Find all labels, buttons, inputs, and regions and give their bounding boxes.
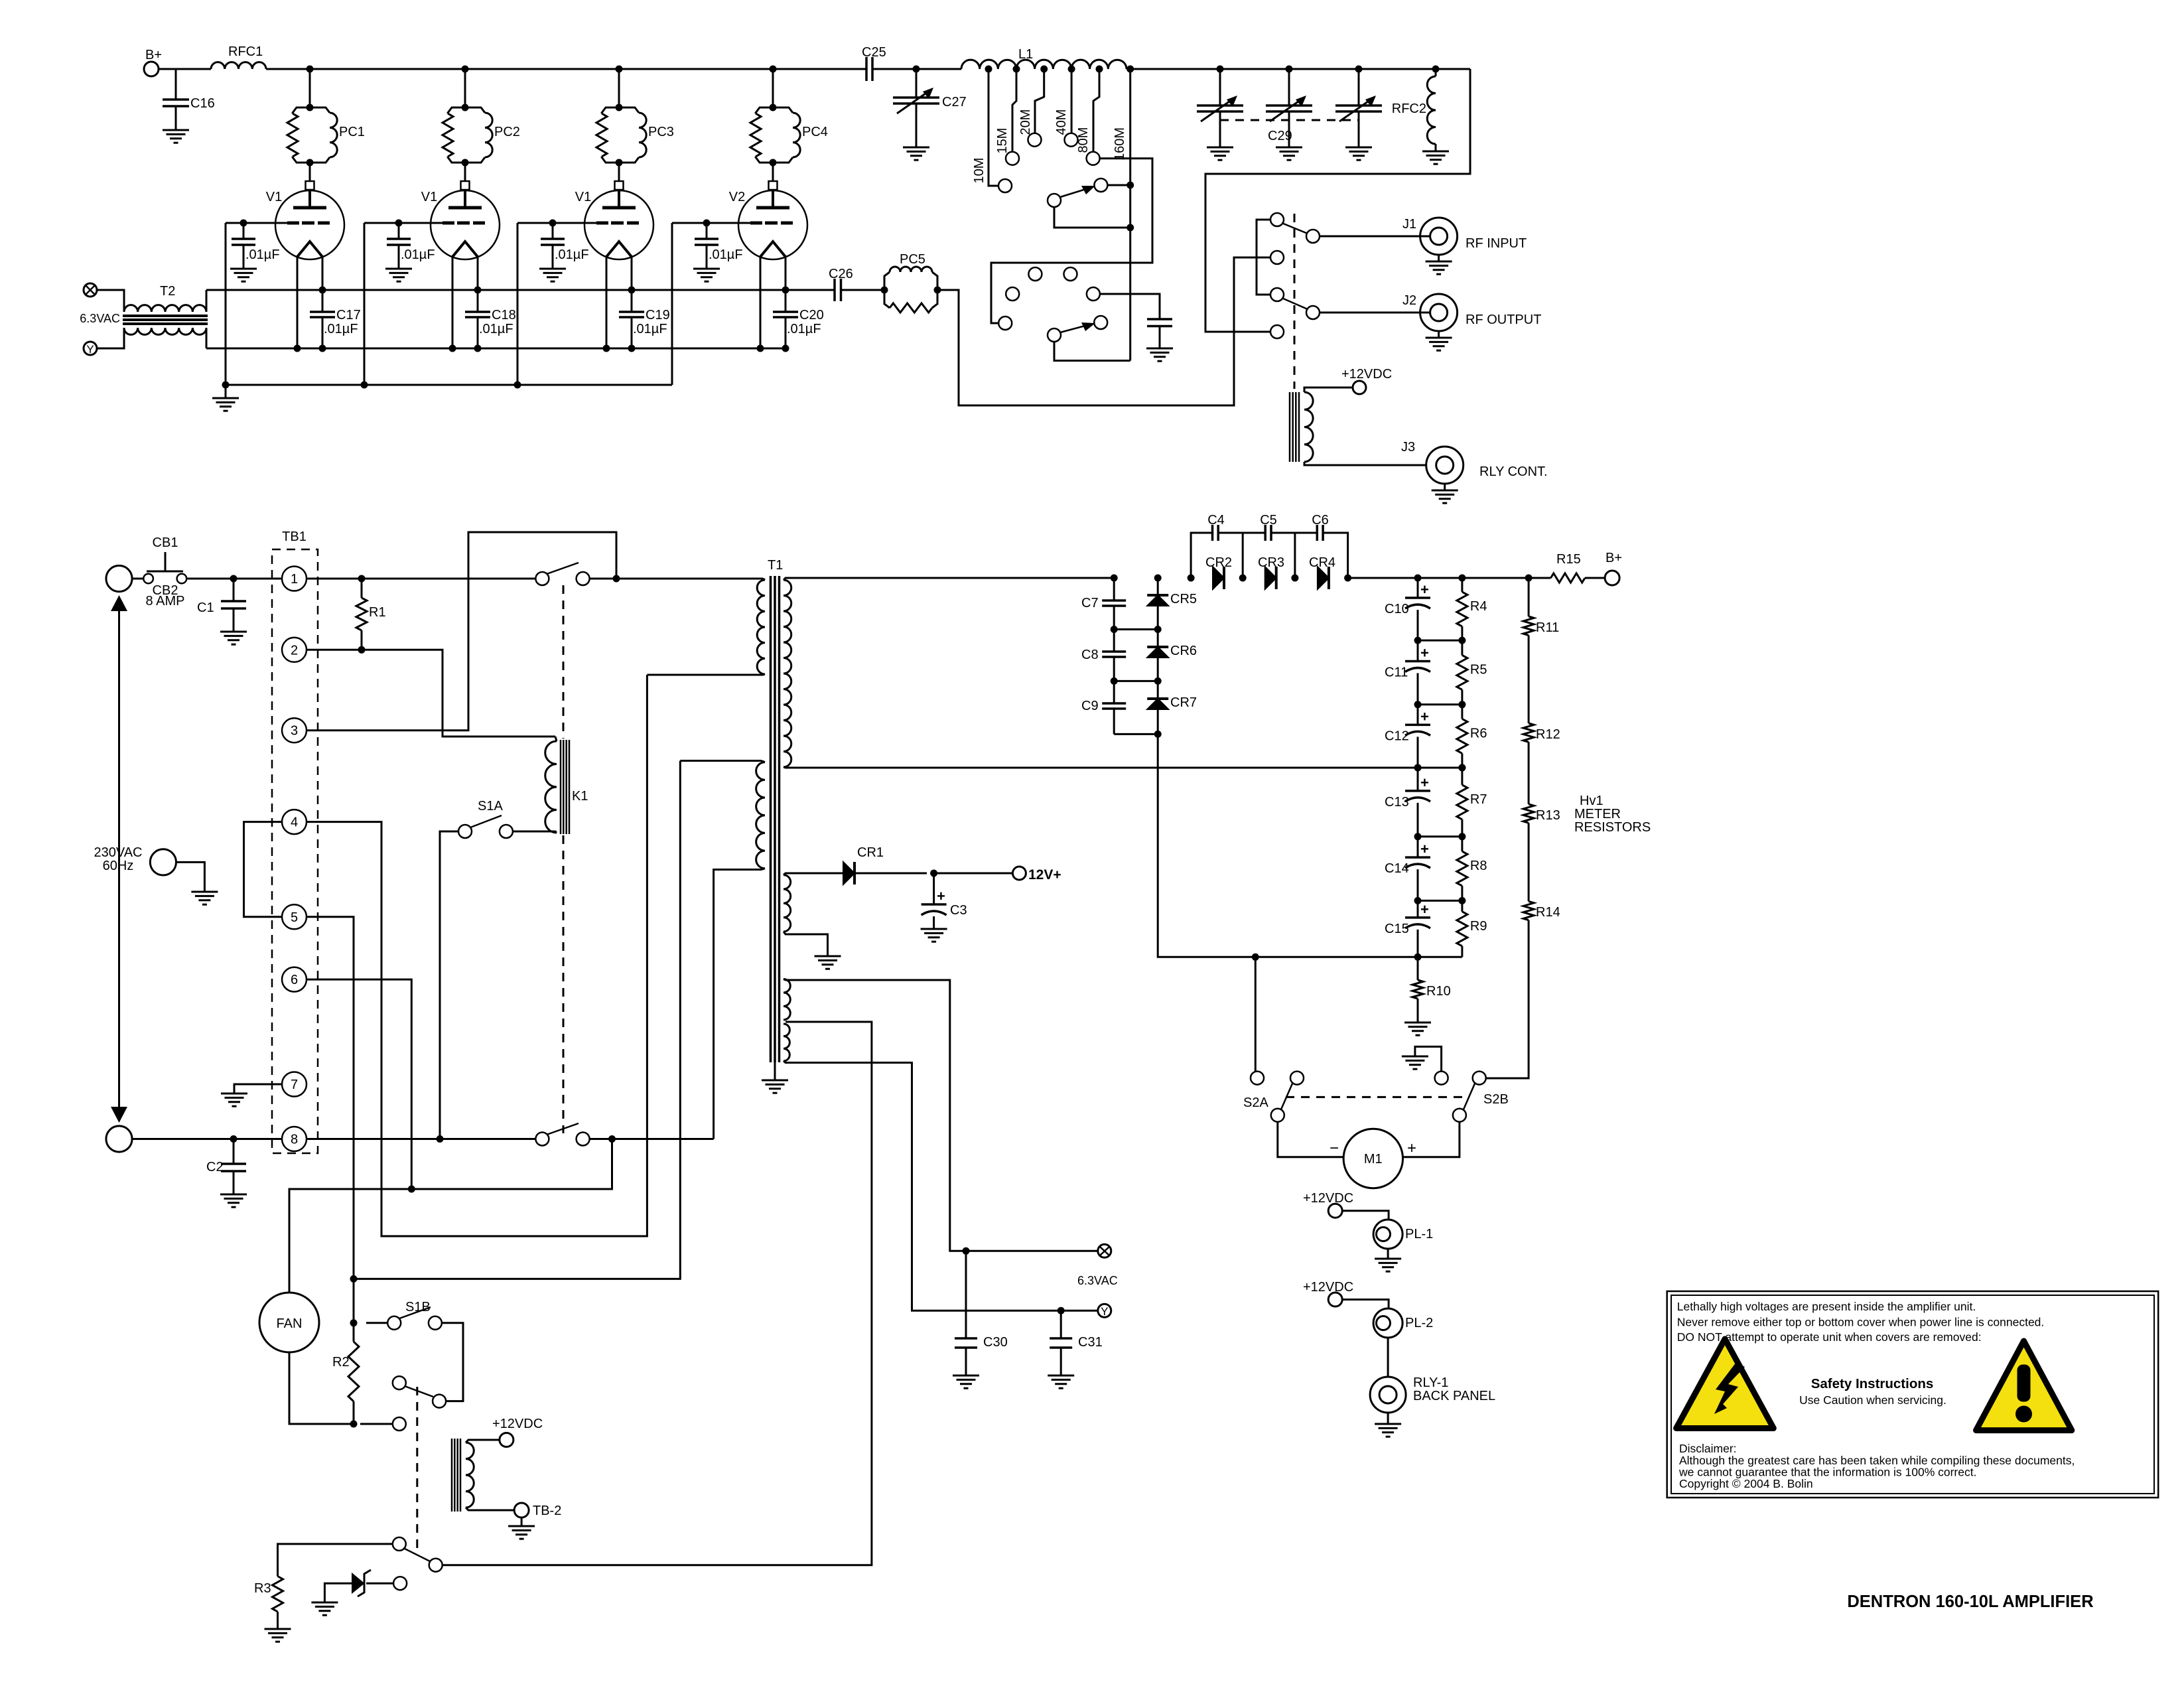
node C1 junction [230,575,238,583]
ground for S2B [1402,1056,1428,1058]
node L1 tap 15M [1013,66,1020,73]
capacitor C3 filter [933,873,935,904]
svg-text:Y: Y [86,343,94,356]
wire cathode legs tube 1 [297,257,299,348]
wire S3B wiper to 160M line [1054,342,1130,361]
tube V1 #2 [461,181,470,190]
svg-text:L1: L1 [1018,47,1033,62]
svg-text:PC3: PC3 [648,125,674,139]
switch S1B common contact [393,1417,406,1431]
wire C25 to L1 [872,68,961,70]
wire 80M to input wafer [991,159,1152,323]
wire PC5 to relay contact 2 [937,257,1271,405]
ground for C29 section 2 [1276,147,1302,149]
wire stack junction row 1 [1418,640,1462,642]
svg-text:.01µF: .01µF [401,247,435,262]
svg-text:C17: C17 [336,308,361,322]
transformer T1 6.3V winding [784,979,790,1021]
ground for T1 core [774,1062,776,1080]
contact 20M [1028,133,1042,147]
terminal TB1-5 [282,904,307,929]
wire terminal 2 to K1 coil [307,650,555,737]
input wafer contact D [1006,287,1019,301]
node filter stack top [1414,575,1422,582]
terminal X filament feed [84,283,97,297]
ground for C27 [903,147,929,149]
diode CR6 [1147,647,1168,658]
wire R13-R14 [1528,823,1530,901]
node S1B feed junction [350,1319,358,1326]
svg-text:S2A: S2A [1243,1095,1268,1110]
svg-text:RFC1: RFC1 [228,44,263,59]
node L1 end 160M [1126,66,1134,73]
tube V1 #3 [615,181,624,190]
node C7 bottom [1111,626,1118,633]
wire terminal 8 to K1 pole B [307,1138,535,1140]
svg-text:.01µF: .01µF [709,247,743,262]
variable capacitor C29 section 2 [1288,69,1290,106]
node K1 pole A output [613,575,620,583]
parasitic suppressor PC5 [881,287,888,294]
switch S1A [500,825,513,838]
svg-text:V1: V1 [421,190,437,204]
svg-text:C12: C12 [1385,729,1409,743]
node cathode-X bus junction tube 1 [319,287,326,294]
wire PC3 to tube anode cap [618,163,620,181]
ground for J1 [1438,255,1440,261]
wire safety ground [176,862,205,892]
terminal block TB1 dashed outline [272,549,318,1153]
switch S2A moving contact [1271,1109,1284,1122]
meter M1 [1343,1129,1402,1188]
node C29 junction 2 [1286,66,1293,73]
svg-text:C13: C13 [1385,795,1409,810]
wire S3A wiper to 160M line [1054,207,1130,228]
capacitor C1 line filter [233,579,235,601]
switch S2A contact 1 [1251,1072,1264,1085]
svg-text:C26: C26 [829,267,853,281]
terminal Y filament out [1098,1304,1111,1317]
svg-text:R8: R8 [1470,859,1487,873]
svg-text:.01µF: .01µF [324,322,358,336]
safety instructions box [1667,1291,2159,1498]
input wafer contact C [1064,267,1077,281]
node L1 tap 80M [1096,66,1103,73]
capacitor input padder [1147,318,1172,320]
relay blade 1 [1282,223,1308,234]
terminal X filament out [1098,1244,1111,1257]
capacitor C17 filament bypass [310,311,335,313]
warning triangle caution [1976,1341,2072,1431]
connector J1 RF INPUT [1420,218,1458,255]
wire top rail RFC1 to C25 [266,68,866,70]
ground for C1 [220,631,247,633]
svg-text:C19: C19 [646,308,670,322]
terminal B+ output [1605,571,1619,585]
ground for C3 [921,928,947,930]
node S1A junction on neutral [437,1135,444,1143]
svg-text:20M: 20M [1018,109,1033,135]
relay K1 contact pole B [535,1133,549,1146]
svg-text:.01µF: .01µF [555,247,589,262]
svg-text:+12VDC: +12VDC [1341,367,1392,382]
wire C7 to CR5 junction [1114,628,1158,630]
node RFC2 junction [1432,66,1440,73]
relay contact 2 [1270,251,1284,264]
wire R14 to S2B [1486,920,1529,1078]
wire K1 coil to S1A [513,831,557,833]
svg-text:PC5: PC5 [900,252,925,267]
terminal +12VDC fan relay [500,1433,513,1447]
wire relay coil to J3 [1304,462,1426,465]
speed switch upper contact [393,1537,406,1551]
svg-text:Disclaimer:: Disclaimer: [1679,1442,1737,1455]
node stack junction 1 [1414,637,1422,644]
svg-text:R14: R14 [1536,905,1560,920]
ground for grid bypass cap tube 3 [539,268,566,270]
relay coil K1 [545,741,557,833]
svg-text:Copyright © 2004 B. Bolin: Copyright © 2004 B. Bolin [1679,1477,1813,1490]
wire terminal 1 to K1 contact [307,578,535,580]
wire AC neutral to TB1 terminal 8 [132,1138,282,1140]
tube V2 #4 [769,181,778,190]
bandswitch S3B wiper [1048,328,1061,342]
svg-text:C8: C8 [1081,648,1099,662]
ground for C16 [163,129,189,131]
capacitor .01uF grid bypass tube 3 [552,223,554,239]
wire C9 to CR7 bottom [1114,733,1158,735]
capacitor C10 filter [1417,578,1419,598]
capacitor C12 filter [1417,705,1419,725]
svg-text:S2B: S2B [1483,1092,1509,1107]
node CR7 bottom [1154,731,1162,738]
contact 10M [998,179,1012,192]
contact 15M [1006,152,1019,165]
wire fan relay to +12VDC [466,1440,500,1443]
resistor R7 bleeder [1461,768,1463,785]
ground for zener [311,1602,338,1604]
node B+ branch [1525,575,1533,582]
wire tap 80M [1093,69,1099,151]
node R2 bottom [350,1421,358,1428]
wire CR1 to 12V+ terminal [934,873,1012,875]
diode CR4 [1318,567,1329,589]
svg-text:12V+: 12V+ [1028,867,1061,882]
parasitic suppressor PC4 (resistor + coil) [770,104,777,111]
wire rail L1 to C29 section [1126,68,1470,70]
node CR3-CR4 [1291,575,1298,582]
wire R11-R12 [1528,635,1530,723]
transformer T1 12V winding [784,875,791,932]
connector RLY-1 BACK PANEL [1370,1377,1406,1413]
zener clamp diode [366,1583,393,1585]
terminal B+ (plate supply input) [144,62,159,76]
node cathode-X bus junction tube 4 [782,287,789,294]
node stack junction 2 [1414,701,1422,708]
node grid bypass junction tube 1 [240,220,247,227]
node C27 junction [913,66,920,73]
node L1 tap 20M [1040,66,1048,73]
relay contact 4 [1270,325,1284,338]
svg-text:C1: C1 [197,600,214,615]
wire tap 40M [1071,69,1073,133]
ground for grid bypass cap tube 4 [693,268,720,270]
node C2 junction [230,1135,238,1143]
switch S2B contact 1 [1435,1072,1448,1085]
svg-text:R2: R2 [332,1355,350,1370]
parasitic suppressor PC2 (resistor + coil) [462,104,469,111]
speed switch moving contact [429,1559,443,1572]
svg-text:10M: 10M [972,158,987,184]
capacitor C11 filter [1417,640,1419,661]
node CR2-CR3 [1239,575,1247,582]
terminal TB1-2 [282,638,307,662]
node 160M-S3A [1126,182,1134,189]
node fan-terminal6 junction [408,1186,415,1193]
dashed K1 actuator link [563,585,565,739]
node stack junction 5 [1414,897,1422,904]
wire PC4 to tube anode cap [772,163,774,181]
terminal AC line hot [106,565,132,591]
relay moving contact J1 [1306,230,1320,243]
warning triangle high voltage [1676,1339,1774,1429]
capacitor C6 [1316,525,1319,541]
variable capacitor C27 tune [916,69,918,98]
dashed S2 gang link [1286,1096,1467,1098]
svg-text:C30: C30 [983,1335,1008,1350]
svg-text:C10: C10 [1385,602,1409,616]
svg-text:R13: R13 [1536,808,1560,823]
circuit breaker CB1/CB2 [132,578,143,580]
wire T1 aux top to terminal 5 line [354,761,680,1279]
resistor R1 [356,598,367,630]
svg-text:RESISTORS: RESISTORS [1574,820,1651,835]
wire C8 to CR6 junction [1114,680,1158,682]
wire to PL-2 [1342,1300,1389,1309]
switch S1B pole 1 [387,1316,401,1330]
node C29 junction 3 [1355,66,1363,73]
resistor R8 bleeder [1461,837,1463,851]
resistor R3 [273,1577,283,1612]
svg-text:RLY-1: RLY-1 [1413,1375,1448,1390]
bandswitch S3A wiper [1048,194,1061,207]
svg-text:+12VDC: +12VDC [1303,1280,1353,1295]
wire zener to ground [324,1583,352,1602]
svg-text:R10: R10 [1426,984,1451,999]
capacitor C5 [1264,525,1266,541]
svg-text:CR6: CR6 [1170,644,1197,658]
inductor L1 tank coil [961,60,1126,69]
resistor R4 bleeder [1461,578,1463,592]
wire meter plus to S2B [1403,1122,1460,1157]
node C4 left [1188,575,1195,582]
wire S2A to meter minus [1278,1122,1343,1157]
node CR5-CR6 [1154,626,1162,633]
wire rail to PC4 [772,69,774,107]
wire S1A to terminal 8 line [440,831,458,1139]
svg-text:.01µF: .01µF [479,322,513,336]
svg-text:B+: B+ [1605,551,1622,565]
svg-text:6.3VAC: 6.3VAC [80,312,120,325]
connector J3 RLY CONT. [1426,447,1464,484]
wire terminal 5 down [307,917,354,1342]
ground for TB-2 [521,1517,523,1526]
svg-text:15M: 15M [995,128,1010,154]
transformer T1 aux winding [756,762,765,869]
wire CR string to C15 bottom rail [1158,734,1418,957]
svg-text:S1B: S1B [405,1300,431,1314]
wire 160M vertical [1129,69,1131,361]
svg-text:C6: C6 [1312,513,1329,528]
node top rail junction PC4 [770,66,777,73]
svg-text:Safety Instructions: Safety Instructions [1811,1376,1934,1391]
ground for J3 [1444,484,1446,490]
svg-text:+: + [1420,644,1429,661]
svg-text:R3: R3 [254,1581,271,1596]
svg-text:+: + [1420,581,1429,598]
svg-text:R4: R4 [1470,599,1487,614]
capacitor C4 [1211,525,1214,541]
ground for grid bypass cap tube 2 [385,268,412,270]
wire S1B pole1 to pole2 [442,1323,463,1401]
wire stack junction row 4 [1418,835,1462,837]
resistor R12 [1523,723,1534,742]
node stack bottom [1414,953,1422,961]
svg-text:.01µF: .01µF [245,247,280,262]
svg-text:RF INPUT: RF INPUT [1466,236,1527,251]
terminal AC safety ground [150,849,176,875]
svg-text:+: + [1420,774,1429,791]
svg-text:6.3VAC: 6.3VAC [1077,1274,1118,1287]
wire fan feed line [289,1139,612,1293]
svg-text:CR5: CR5 [1170,592,1197,606]
node 160M-wiper [1126,224,1134,232]
wire speed switch to 6.3V tap [443,1022,872,1565]
transformer T1 primary winding [757,580,765,674]
resistor R9 bleeder [1461,900,1463,911]
wire rail to PC2 [464,69,466,107]
svg-text:C16: C16 [190,96,215,111]
capacitor C14 filter [1417,837,1419,857]
node cathode-X bus junction tube 3 [628,287,636,294]
svg-text:C14: C14 [1385,861,1409,876]
capacitor C30 filament bypass [963,1247,970,1255]
svg-text:7: 7 [291,1078,298,1092]
fan motor FAN [259,1293,319,1352]
svg-text:Y: Y [1101,1305,1108,1318]
dashed relay actuator link [1294,214,1296,389]
capacitor C20 filament bypass [773,311,798,313]
svg-text:C7: C7 [1081,596,1099,610]
resistor R6 bleeder [1461,705,1463,719]
wire C26 to PC5 [841,289,885,291]
wire terminal 7 to ground [234,1084,282,1093]
svg-text:V1: V1 [266,190,282,204]
svg-text:6: 6 [291,973,298,987]
wire to PL-1 [1342,1211,1389,1220]
wire HV rail to B+ [1348,577,1529,579]
wire PC2 to tube anode cap [464,163,466,181]
svg-text:C20: C20 [799,308,824,322]
relay blade 2 [1282,298,1308,309]
switch S1B pole 2 [433,1395,446,1408]
svg-text:8 AMP: 8 AMP [146,594,185,608]
wire S2B contact 1 to ground [1415,1046,1442,1071]
diode CR1 [843,862,854,884]
svg-text:CR4: CR4 [1309,555,1335,570]
svg-text:RF OUTPUT: RF OUTPUT [1466,313,1541,327]
wire rail to PC3 [618,69,620,107]
svg-text:C29: C29 [1268,129,1292,143]
switch S2B moving contact [1453,1109,1466,1122]
svg-text:K1: K1 [572,789,588,804]
wire grid of tube 3 to ground bus [517,222,596,224]
arrow 230VAC span [118,608,120,1109]
svg-text:C15: C15 [1385,922,1409,936]
diode CR2 [1213,567,1224,589]
wire K1 pole B to T1 aux winding [590,1138,714,1140]
svg-text:3: 3 [291,724,298,739]
node grid bypass junction tube 4 [703,220,711,227]
contact S3A selected [1094,178,1107,192]
svg-text:T1: T1 [768,558,783,573]
ground for terminal 7 [221,1093,247,1095]
wire tie contacts 1-3 [1257,220,1271,295]
svg-text:PC2: PC2 [494,125,520,139]
wire grounded-grid bus [226,384,672,386]
node C29 junction 1 [1217,66,1224,73]
wire stack junction row 3 [1418,767,1462,769]
tube V1 #1 [306,181,314,190]
capacitor C19 filament bypass [619,311,644,313]
svg-text:R6: R6 [1470,726,1487,740]
ground for 12V winding [815,955,841,957]
svg-text:B+: B+ [145,48,162,62]
node stack junction 3 [1414,764,1422,772]
svg-text:CR3: CR3 [1258,555,1284,570]
svg-text:FAN: FAN [277,1316,303,1331]
switch S2B contact 2 [1473,1072,1486,1085]
svg-text:BACK PANEL: BACK PANEL [1413,1389,1495,1403]
node C6 right [1344,575,1351,582]
node ground bus junctions [222,382,230,389]
wire to J1 [1320,236,1430,238]
node CR6-CR7 [1154,677,1162,685]
svg-text:5: 5 [291,910,298,925]
ground for grid bypass cap tube 1 [230,268,257,270]
contact S3B selected [1094,316,1107,329]
svg-text:DENTRON 160-10L AMPLIFIER: DENTRON 160-10L AMPLIFIER [1847,1592,2093,1611]
svg-text:+: + [937,888,945,904]
node grid bypass junction tube 3 [549,220,557,227]
terminal TB1-1 [282,567,307,591]
capacitor .01uF grid bypass tube 1 [243,223,245,239]
capacitor .01uF grid bypass tube 4 [706,223,708,239]
dashed gang line C29 [1220,119,1359,121]
resistor R2 [348,1342,359,1401]
relay coil RLY (antenna relay) [1289,392,1291,462]
svg-text:J1: J1 [1402,217,1416,232]
svg-text:60Hz: 60Hz [103,859,134,873]
wire to J2 [1320,312,1430,314]
wire stack junction row 5 [1418,900,1462,902]
svg-text:J2: J2 [1402,293,1416,308]
svg-text:C27: C27 [942,95,967,109]
wire PL-2 to RLY-1 [1387,1338,1389,1377]
inductor RFC1 [211,62,266,69]
terminal TB1-4 [282,810,307,834]
connector J2 RF OUTPUT [1420,294,1458,331]
